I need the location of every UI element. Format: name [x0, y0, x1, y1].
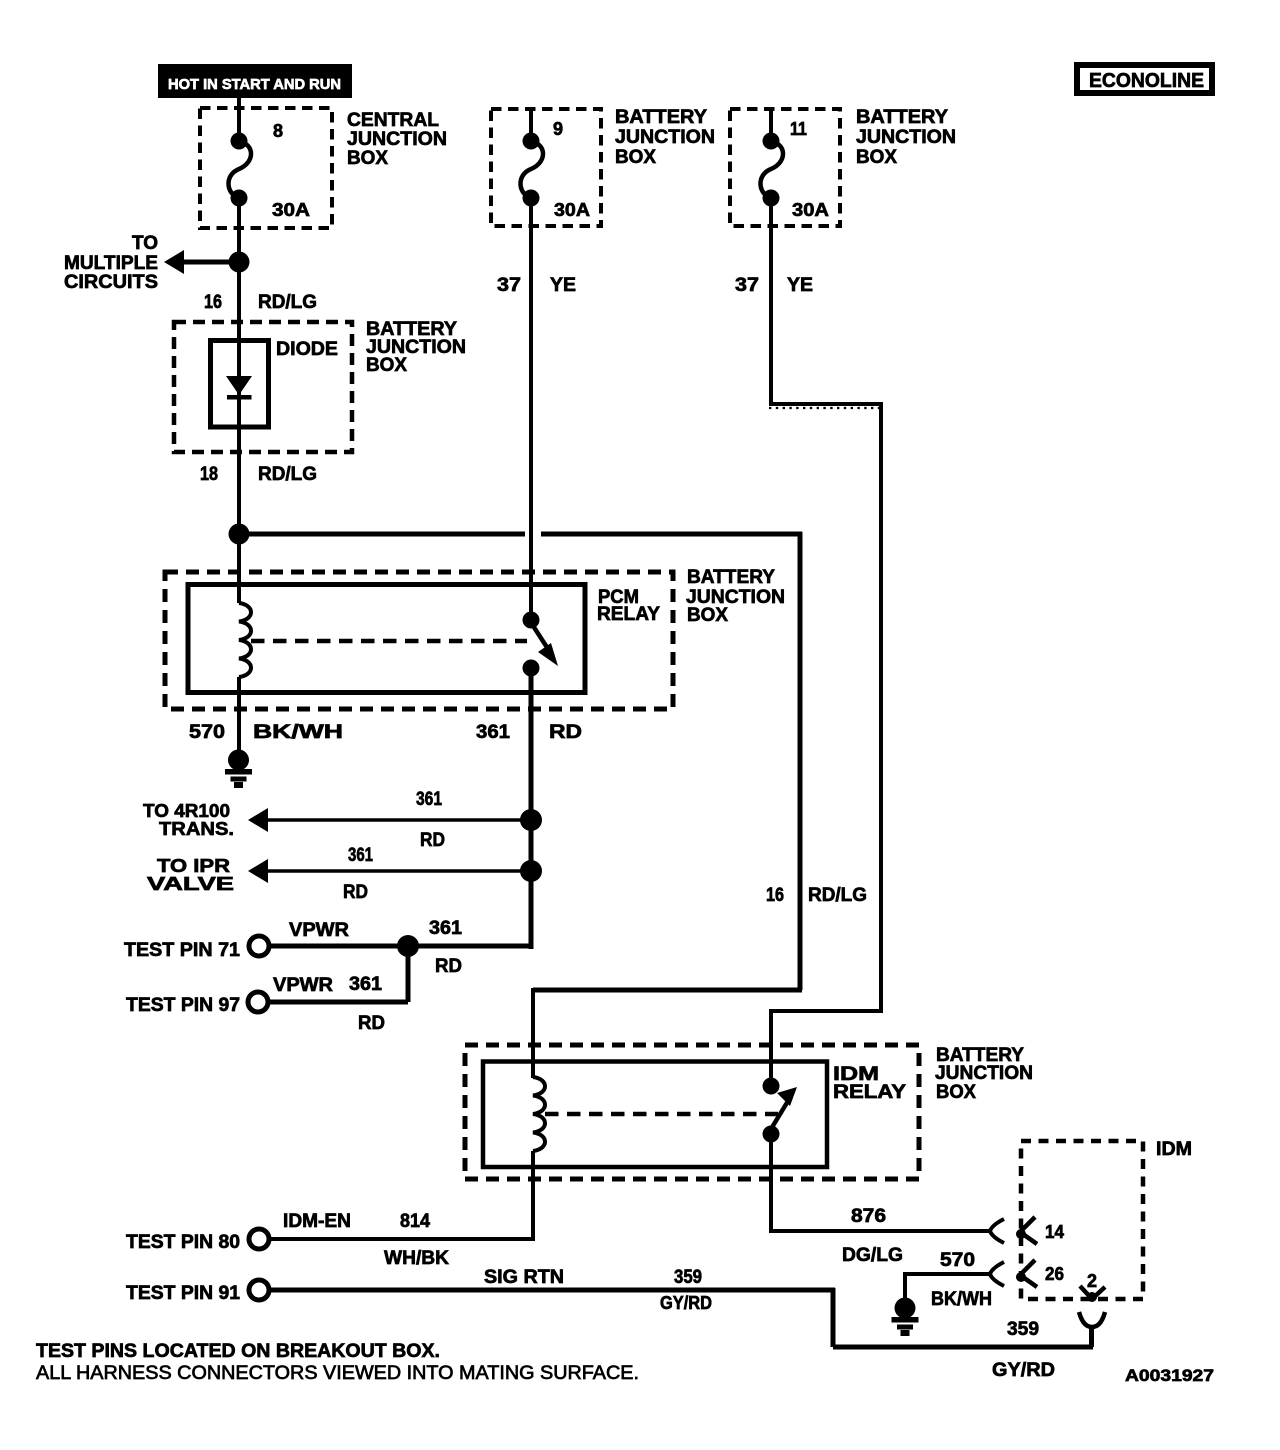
- svg-text:BOX: BOX: [936, 1082, 976, 1103]
- wire 570 BK/WH pin 26 to ground: [905, 1272, 989, 1300]
- svg-text:TEST PIN 80: TEST PIN 80: [126, 1232, 240, 1253]
- label 37 YE (fuse 11): [735, 275, 813, 296]
- svg-text:361: 361: [416, 789, 442, 810]
- fuse F9 30A: [520, 109, 543, 228]
- svg-text:JUNCTION: JUNCTION: [935, 1063, 1033, 1084]
- connector IDM pin 26: [990, 1260, 1037, 1287]
- svg-text:TEST PIN 91: TEST PIN 91: [126, 1283, 240, 1304]
- wire 37 YE fuse 9 to PCM relay switch: [529, 206, 533, 614]
- svg-text:814: 814: [400, 1211, 430, 1232]
- PCM relay case: [188, 585, 585, 693]
- wire 361 RD PCM relay output: [529, 676, 534, 949]
- svg-text:DIODE: DIODE: [276, 339, 338, 360]
- IDM relay case: [483, 1062, 827, 1168]
- svg-text:A0031927: A0031927: [1125, 1366, 1214, 1385]
- svg-text:RELAY: RELAY: [597, 604, 660, 625]
- svg-text:361: 361: [348, 845, 373, 866]
- label 18 RD/LG: [200, 464, 317, 485]
- wire 16 RD/LG fuse 8 to diode: [237, 206, 241, 341]
- label 359 GY/RD (pin 2): [992, 1319, 1055, 1381]
- test pin 71 terminal: [249, 936, 269, 956]
- svg-text:RD: RD: [420, 830, 445, 851]
- PCM relay coil: [239, 603, 251, 677]
- IDM module box: [1021, 1141, 1143, 1299]
- wire 876 DG/LG IDM relay output to pin 14: [771, 1142, 989, 1233]
- svg-text:GY/RD: GY/RD: [992, 1360, 1055, 1381]
- svg-text:RD: RD: [343, 882, 368, 903]
- wire 814 WH/BK IDM-EN: [269, 1151, 535, 1241]
- svg-text:RD: RD: [435, 956, 462, 977]
- label circuit 16 RD/LG: [204, 292, 317, 313]
- wire/arrow to 4R100 trans: [248, 808, 531, 832]
- svg-text:TRANS.: TRANS.: [159, 819, 234, 839]
- wire 359 GY/RD SIG RTN to IDM pin 2: [269, 1288, 1093, 1347]
- svg-text:876: 876: [851, 1206, 886, 1227]
- svg-text:30A: 30A: [554, 200, 590, 220]
- svg-text:JUNCTION: JUNCTION: [347, 129, 447, 150]
- svg-text:CENTRAL: CENTRAL: [347, 110, 439, 131]
- wire VPWR 361 RD (test pin 97): [268, 946, 408, 1002]
- label IDM RELAY: [833, 1064, 906, 1103]
- svg-text:CIRCUITS: CIRCUITS: [64, 272, 158, 293]
- svg-text:16: 16: [766, 885, 784, 906]
- node 361 branch to IPR: [520, 860, 542, 882]
- svg-text:YE: YE: [550, 275, 576, 296]
- svg-text:BATTERY: BATTERY: [687, 567, 775, 588]
- test pin 91 terminal: [249, 1280, 269, 1300]
- wire/arrow to IPR valve: [248, 859, 531, 883]
- diode case: [211, 341, 269, 428]
- svg-text:VPWR: VPWR: [289, 920, 349, 941]
- svg-text:361: 361: [349, 974, 382, 995]
- svg-text:RD: RD: [549, 722, 582, 743]
- test pin 80 terminal: [249, 1229, 269, 1249]
- svg-text:2: 2: [1087, 1271, 1097, 1291]
- svg-text:RD/LG: RD/LG: [258, 292, 317, 313]
- svg-text:TO: TO: [132, 233, 158, 254]
- label 570 BK/WH: [189, 722, 343, 743]
- svg-text:IDM-EN: IDM-EN: [283, 1211, 351, 1232]
- node junction to multiple circuits: [229, 252, 250, 273]
- node VPWR junction: [397, 935, 419, 957]
- svg-text:359: 359: [674, 1267, 702, 1288]
- svg-text:JUNCTION: JUNCTION: [856, 127, 956, 148]
- IDM relay outer box (Battery Junction Box): [465, 1045, 919, 1179]
- label BATTERY JUNCTION BOX (PCM relay): [686, 567, 785, 626]
- IDM relay switch: [763, 1078, 798, 1143]
- svg-text:ALL HARNESS CONNECTORS VIEWED: ALL HARNESS CONNECTORS VIEWED INTO MATIN…: [36, 1363, 639, 1384]
- svg-text:26: 26: [1045, 1264, 1064, 1284]
- ground G2: [892, 1298, 919, 1337]
- svg-text:MULTIPLE: MULTIPLE: [64, 253, 158, 274]
- svg-text:570: 570: [940, 1250, 975, 1271]
- fuse F9 box (Battery Junction Box): [491, 109, 601, 226]
- wire 37 YE fuse 11 to IDM relay switch: [769, 206, 883, 1078]
- wire 570 BK/WH PCM coil to ground: [237, 677, 241, 750]
- label 361 RD (4R100): [416, 789, 445, 851]
- label IDM-EN 814 WH/BK: [283, 1211, 449, 1269]
- fuse F8 box (Central Junction Box): [200, 108, 332, 228]
- svg-text:14: 14: [1045, 1222, 1064, 1242]
- svg-text:DG/LG: DG/LG: [842, 1245, 903, 1266]
- svg-text:TEST PINS LOCATED ON BREAKOUT: TEST PINS LOCATED ON BREAKOUT BOX.: [36, 1341, 440, 1362]
- connector IDM pin 14: [990, 1217, 1037, 1244]
- label TO IPR VALVE: [147, 856, 234, 894]
- svg-text:SIG RTN: SIG RTN: [484, 1267, 564, 1288]
- svg-text:11: 11: [790, 119, 807, 139]
- svg-text:VPWR: VPWR: [273, 975, 333, 996]
- fuse F11 box (Battery Junction Box): [730, 109, 840, 226]
- svg-text:RD: RD: [358, 1013, 385, 1034]
- svg-text:ECONOLINE: ECONOLINE: [1089, 70, 1204, 92]
- svg-text:BK/WH: BK/WH: [253, 722, 343, 743]
- svg-text:BOX: BOX: [856, 147, 897, 168]
- wire 18 RD/LG diode to PCM relay coil: [237, 452, 241, 603]
- connector IDM pin 2 (bottom): [1079, 1286, 1105, 1347]
- svg-text:IDM: IDM: [1156, 1139, 1192, 1160]
- label BATTERY JUNCTION BOX (diode): [366, 319, 466, 376]
- label TO 4R100 TRANS.: [143, 801, 234, 839]
- svg-text:9: 9: [553, 119, 563, 139]
- svg-text:37: 37: [497, 275, 521, 296]
- wire 16 RD/LG junction to IDM relay coil (hops fuse 9 wire): [239, 532, 802, 1078]
- svg-text:BOX: BOX: [366, 355, 407, 376]
- svg-text:VALVE: VALVE: [147, 874, 234, 894]
- svg-text:JUNCTION: JUNCTION: [615, 127, 715, 148]
- PCM relay actuation line (dashed): [251, 639, 527, 644]
- svg-text:TO IPR: TO IPR: [157, 856, 230, 876]
- svg-text:37: 37: [735, 275, 759, 296]
- wire VPWR 361 RD (test pin 71): [269, 944, 531, 949]
- diode box (Battery Junction Box): [174, 322, 352, 452]
- label TO MULTIPLE CIRCUITS: [64, 233, 158, 293]
- label 876 DG/LG: [842, 1206, 903, 1266]
- svg-text:8: 8: [273, 121, 283, 141]
- label 37 YE (fuse 9): [497, 275, 576, 296]
- svg-text:30A: 30A: [272, 200, 310, 220]
- label 361 RD (relay output): [476, 722, 582, 743]
- ECONOLINE title box: [1077, 65, 1212, 93]
- svg-text:16: 16: [204, 292, 222, 313]
- svg-text:30A: 30A: [792, 200, 829, 220]
- fuse F8 30A: [228, 96, 251, 228]
- svg-text:359: 359: [1007, 1319, 1039, 1340]
- PCM relay outer box (Battery Junction Box): [165, 572, 673, 709]
- arrow to multiple circuits: [164, 250, 239, 274]
- label VPWR 361 RD (pin 97): [273, 974, 385, 1034]
- svg-text:GY/RD: GY/RD: [660, 1293, 712, 1313]
- diode D1: [226, 341, 252, 464]
- fuse F11 30A: [760, 109, 783, 228]
- svg-text:BK/WH: BK/WH: [931, 1289, 992, 1310]
- svg-text:TO 4R100: TO 4R100: [143, 801, 230, 821]
- label CENTRAL JUNCTION BOX: [347, 110, 447, 169]
- svg-text:YE: YE: [787, 275, 813, 296]
- svg-text:RELAY: RELAY: [833, 1082, 906, 1103]
- svg-text:RD/LG: RD/LG: [808, 885, 867, 906]
- ground G1: [225, 750, 252, 789]
- label SIG RTN 359 GY/RD: [484, 1267, 712, 1313]
- node PCM coil feed junction: [229, 524, 250, 545]
- label 570 BK/WH (pin 26): [931, 1250, 992, 1310]
- PCM relay switch: [523, 612, 559, 677]
- svg-text:TEST PIN 97: TEST PIN 97: [126, 995, 240, 1016]
- label 361 RD (IPR): [343, 845, 373, 903]
- svg-text:18: 18: [200, 464, 218, 485]
- label PCM RELAY: [597, 587, 660, 625]
- svg-text:HOT IN START AND RUN: HOT IN START AND RUN: [168, 76, 341, 93]
- svg-text:BOX: BOX: [347, 148, 388, 169]
- banner HOT IN START AND RUN: [158, 64, 352, 98]
- label VPWR 361 RD: [289, 918, 462, 977]
- svg-text:BOX: BOX: [615, 147, 656, 168]
- svg-text:BATTERY: BATTERY: [615, 107, 707, 128]
- label BATTERY JUNCTION BOX (F11): [856, 107, 956, 168]
- svg-text:RD/LG: RD/LG: [258, 464, 317, 485]
- node 361 branch to 4R100: [520, 809, 542, 831]
- svg-text:570: 570: [189, 722, 225, 743]
- svg-text:361: 361: [476, 722, 510, 743]
- svg-text:BOX: BOX: [687, 605, 728, 626]
- svg-text:TEST PIN 71: TEST PIN 71: [124, 940, 240, 961]
- svg-text:WH/BK: WH/BK: [384, 1248, 449, 1269]
- test pin 97 terminal: [248, 992, 268, 1012]
- label BATTERY JUNCTION BOX (IDM relay): [935, 1045, 1033, 1103]
- label 16 RD/LG (IDM coil feed): [766, 885, 867, 906]
- label BATTERY JUNCTION BOX (F9): [615, 107, 715, 168]
- svg-text:361: 361: [429, 918, 462, 939]
- svg-text:BATTERY: BATTERY: [856, 107, 948, 128]
- IDM relay actuation line (dashed): [545, 1112, 778, 1117]
- IDM relay coil: [533, 1077, 545, 1151]
